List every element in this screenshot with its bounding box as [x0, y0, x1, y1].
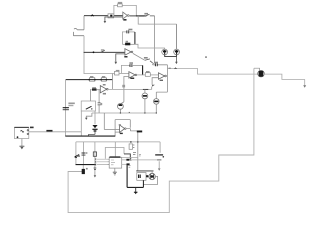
net flag on U4 + input: [152, 85, 155, 87]
resistor R1: [118, 4, 123, 7]
wire V1 output: [29, 131, 82, 133]
current source I1: [121, 102, 124, 104]
label R1: [118, 2, 122, 4]
label OUT net: [137, 131, 142, 133]
resistor R4: [145, 73, 150, 77]
left pin components: [97, 159, 107, 164]
ground arrow below Ib: [175, 57, 177, 62]
label C2: [154, 62, 158, 64]
label U6: [119, 124, 121, 125]
current source I2: [156, 92, 167, 99]
wire R2 to U1: [114, 15, 123, 17]
wire D1 to dark rail: [88, 132, 95, 137]
capacitor C5 inline on riser: [63, 107, 69, 109]
label C5: [68, 103, 74, 105]
wire junction drop to U5 rail: [112, 74, 114, 90]
wire source long dark: [66, 79, 113, 81]
capacitor C4 branch below U5 input: [98, 89, 100, 113]
wire R4 to U4: [150, 74, 158, 76]
op-amp U4: [158, 73, 164, 79]
label S2: [144, 57, 148, 59]
wire long output to right: [167, 69, 259, 75]
label U4 V- pin: [160, 80, 163, 81]
junction dot U6 line on rail: [137, 141, 139, 143]
wire U6 output: [126, 129, 138, 171]
capacitor C9 at rail right end: [158, 142, 161, 168]
op-amp U1: [123, 12, 128, 19]
wire U3 input: [84, 73, 115, 75]
dark wire IC pin down: [126, 165, 128, 188]
dark bottom rail of supply: [76, 164, 96, 166]
wire input bus vertical: [83, 36, 85, 74]
wire rail to IC top: [114, 142, 116, 157]
wire LED subblock top: [136, 170, 153, 172]
wire mid rail y113: [92, 112, 156, 114]
node tick on long wire: [175, 68, 177, 69]
wire bottom block top rail: [76, 141, 160, 143]
ground arrow left of mid rail: [86, 113, 92, 118]
ground branch below dark rail: [94, 165, 96, 172]
capacitor C3: [130, 64, 132, 67]
capacitor C2: [155, 63, 157, 66]
current source I3: [143, 88, 148, 90]
wire loop to current mirror: [135, 44, 165, 49]
ground arrow U2 + input: [115, 62, 118, 64]
branch Q1 arrow component: [75, 142, 77, 165]
wire U1 input: [84, 15, 108, 17]
current source Ib: [174, 49, 180, 55]
wire U4 out: [166, 75, 167, 77]
wire dark link to IC: [124, 154, 130, 160]
branch capacitor C7: [94, 142, 96, 165]
switch box SW1: [81, 101, 95, 111]
wire R3 to U3: [119, 72, 129, 74]
wire U2 noninverting stub: [116, 54, 125, 62]
wire U4 noninverting stub: [152, 78, 158, 85]
node A junction: [153, 63, 155, 65]
junction blob Q2 to lamp: [146, 175, 148, 177]
wire U1 feedback left: [114, 5, 118, 15]
wire SW1 right drop to diode: [94, 111, 96, 124]
comb component under rail: [130, 141, 132, 143]
stray label dot: [205, 56, 207, 57]
diode D1: [92, 125, 97, 128]
meter M1 (right component): [254, 68, 260, 70]
switch S3 on U2 input: [101, 50, 105, 52]
label C1: [128, 29, 132, 31]
switch S5 (source bypass switch): [73, 28, 84, 35]
IC bottom ground: [114, 168, 116, 172]
wire U2 output diagonal: [133, 53, 145, 60]
op-amp U6: [120, 125, 125, 132]
wire U4 loop right / output vertical: [166, 65, 168, 92]
op-amp U2: [125, 49, 131, 55]
junction dot V1 bottom left: [17, 136, 19, 138]
resistor R7: [101, 78, 106, 82]
lamp DL1: [151, 171, 153, 173]
wire U1 output: [129, 15, 144, 17]
ground symbol V1: [19, 145, 24, 147]
ground arrow bottom: [135, 187, 137, 192]
branch capacitor C6: [82, 142, 84, 165]
tick on mid rail: [129, 111, 130, 113]
label V1: [30, 127, 34, 129]
wire C1 loop right dark: [134, 32, 136, 44]
label U1 V- pin: [123, 19, 126, 21]
junction dot U2 input: [93, 51, 95, 53]
wire staircase return: [68, 68, 254, 212]
label net vin: [46, 130, 52, 132]
wire U6 feedback loop: [115, 120, 130, 128]
wire U1 out to Ib branch: [138, 16, 176, 24]
wire U2 input: [84, 51, 125, 53]
voltage source V1 box: [14, 128, 28, 139]
wire U3 loop left: [121, 65, 130, 73]
dark bottom wire: [127, 186, 143, 188]
label U5 pins: [103, 84, 106, 86]
wire U3 out: [137, 74, 146, 76]
wire U1 switch drop: [154, 16, 156, 63]
op-amp U3: [129, 72, 135, 78]
IC X1 box: [109, 157, 122, 168]
dark rail (V1 return): [65, 135, 115, 137]
wire U3 loop right dark: [132, 64, 143, 66]
wire current source bottoms: [165, 55, 177, 57]
polarity element E1 on loop bottom: [122, 43, 134, 45]
resistor R3: [115, 71, 120, 75]
wire SW1 bottom-left drop: [80, 111, 82, 136]
wire U6 inverting from mid rail: [103, 113, 105, 130]
wire left source riser: [65, 80, 67, 137]
capacitor C1: [127, 30, 129, 33]
sine mark in V1: [21, 130, 24, 132]
label U3 V- pin: [130, 78, 134, 80]
IC right pin wires: [122, 157, 138, 159]
resistor R5: [92, 89, 97, 91]
wire U3 noninverting stub: [124, 77, 129, 102]
current source Ia: [162, 49, 168, 55]
ground arrow right end: [304, 79, 306, 85]
wire U4 loop top: [153, 64, 168, 66]
resistor R2: [108, 14, 114, 18]
transistor Q2 box: [137, 173, 146, 181]
label U6 V- pin: [120, 133, 123, 134]
node chevron on U1 input wire: [91, 15, 94, 16]
wire U6 left vertical to dark rail: [114, 120, 116, 136]
label C3: [129, 62, 133, 64]
wire transistor emitter dark: [142, 180, 144, 187]
wire U1 feedback right: [123, 5, 137, 16]
wire lamp loop bottom: [143, 176, 157, 184]
IC left pins: [107, 159, 109, 164]
wire U5 inverting input: [97, 89, 101, 91]
label net on U3 + vertical: [122, 85, 125, 88]
switch S2: [145, 59, 153, 63]
wire V1 ground drop: [21, 139, 23, 146]
resistor R6: [89, 78, 94, 82]
capacitor C1 loop left: [122, 32, 127, 44]
small marks above dot: [133, 152, 136, 154]
wire R5 left and drop to switch box: [90, 90, 91, 101]
wire supply inner rect: [105, 148, 124, 159]
wire input bus vertical top: [83, 16, 85, 30]
capacitor C8 on return riser: [82, 169, 85, 174]
op-amp U5: [100, 86, 106, 93]
switch S1: [145, 14, 155, 16]
label U2 V- pin: [124, 56, 127, 58]
wire component to right bend: [264, 74, 305, 79]
wire U6 + stub: [115, 131, 120, 133]
wire U5 output rail: [108, 88, 152, 90]
wire U1 noninverting stub: [105, 17, 123, 22]
label S1: [144, 13, 148, 15]
wire U5 rail end up to flag: [151, 87, 153, 90]
ground arrow U1 + input: [104, 21, 107, 23]
V1 terminals: [27, 130, 28, 131]
